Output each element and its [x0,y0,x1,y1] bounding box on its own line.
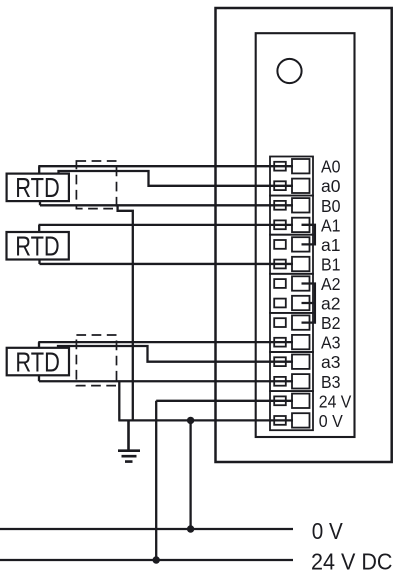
svg-text:a0: a0 [321,176,341,196]
svg-text:24 V: 24 V [319,391,352,411]
svg-text:A1: A1 [321,215,341,235]
svg-text:RTD: RTD [15,346,60,377]
svg-text:24 V DC: 24 V DC [311,549,393,575]
svg-text:a1: a1 [321,235,341,255]
svg-text:0 V: 0 V [319,411,343,431]
svg-text:0 V: 0 V [312,518,343,544]
svg-text:RTD: RTD [15,172,60,203]
svg-text:B0: B0 [321,196,341,216]
svg-text:B3: B3 [321,372,341,392]
svg-text:a3: a3 [321,352,341,372]
svg-text:A0: A0 [321,157,341,177]
svg-text:A3: A3 [321,333,341,353]
svg-text:B1: B1 [321,254,341,274]
svg-text:A2: A2 [321,274,341,294]
svg-text:B2: B2 [321,313,341,333]
svg-text:RTD: RTD [15,231,60,262]
svg-text:a2: a2 [321,294,341,314]
